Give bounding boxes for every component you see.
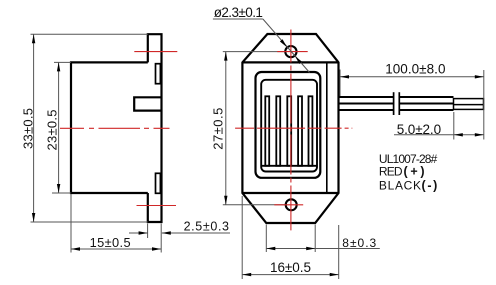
dimension 2.5±0.3 bbox=[129, 224, 230, 239]
grille slot 1 bbox=[265, 96, 269, 166]
bottom tab slot (side view) bbox=[156, 173, 161, 193]
wire exit bump (side view) bbox=[134, 97, 161, 110]
red horizontal centre line (front view) bbox=[235, 127, 352, 129]
hole diameter leader Ø2.3±0.1 bbox=[213, 19, 310, 73]
svg-text:2.5±0.3: 2.5±0.3 bbox=[184, 220, 229, 234]
bottom mounting hole bbox=[286, 199, 297, 210]
top tab slot (side view) bbox=[156, 64, 161, 84]
svg-text:100.0±8.0: 100.0±8.0 bbox=[385, 61, 445, 76]
red vertical centre line (front view) bbox=[290, 30, 292, 231]
svg-text:27±0.5: 27±0.5 bbox=[211, 108, 226, 150]
inner vertical edge (right side) bbox=[326, 62, 328, 193]
dimension 33±0.5 bbox=[31, 34, 148, 222]
cable break symbol bbox=[394, 92, 400, 115]
grille slot 3 bbox=[287, 96, 291, 166]
dimension 100.0±8.0 bbox=[340, 70, 484, 140]
svg-text:16±0.5: 16±0.5 bbox=[270, 260, 311, 275]
grille slot 2 bbox=[276, 96, 280, 166]
svg-text:8±0.3: 8±0.3 bbox=[342, 236, 376, 250]
27 dim extension lines (black) bbox=[223, 52, 286, 205]
grille slot 5 bbox=[309, 96, 313, 166]
svg-text:15±0.5: 15±0.5 bbox=[90, 235, 131, 250]
dimension 16±0.5 bbox=[242, 196, 339, 279]
grille inner rounded rect bbox=[261, 80, 317, 172]
red axis line bottom hole (side view) bbox=[137, 205, 177, 207]
grille bottom rail bbox=[262, 165, 317, 167]
dimension 23±0.5 bbox=[52, 62, 71, 193]
dimension 15±0.5 bbox=[71, 194, 161, 253]
svg-text:33±0.5: 33±0.5 bbox=[21, 108, 36, 149]
wire bundle (insulated) bbox=[339, 97, 454, 110]
svg-text:23±0.5: 23±0.5 bbox=[44, 110, 59, 151]
red centre line (side view) bbox=[60, 127, 170, 129]
svg-text:BLACK: BLACK bbox=[379, 179, 421, 193]
svg-text:( + ): ( + ) bbox=[404, 165, 425, 179]
grille slot 4 bbox=[298, 96, 302, 166]
grille outer rounded rect bbox=[256, 72, 321, 178]
red axis top hole (front view) bbox=[277, 51, 308, 53]
bare wire end bbox=[454, 99, 484, 110]
top mounting hole bbox=[285, 46, 296, 57]
side view front plate (bezel with tabs) bbox=[148, 34, 162, 222]
svg-text:5.0±2.0: 5.0±2.0 bbox=[397, 122, 441, 137]
svg-text:ø2.3±0.1: ø2.3±0.1 bbox=[214, 5, 263, 20]
svg-text:RED: RED bbox=[379, 165, 403, 179]
front view outline (body + tabs) bbox=[242, 34, 338, 223]
dimension 5.0±2.0 bbox=[394, 112, 484, 140]
red axis line top hole (side view) bbox=[134, 51, 177, 53]
side view body outline bbox=[71, 62, 148, 193]
dimension 8±0.3 bbox=[266, 225, 380, 253]
red axis bottom hole (front view) bbox=[274, 204, 303, 206]
svg-text:( - ): ( - ) bbox=[422, 179, 438, 193]
